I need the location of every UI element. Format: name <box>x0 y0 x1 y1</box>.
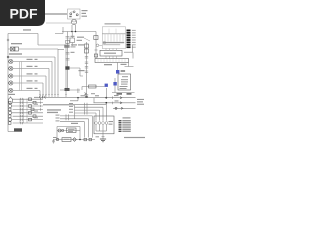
label net name right <box>127 93 132 94</box>
wire <box>82 86 105 88</box>
wire row low3 <box>60 122 85 138</box>
wire pointer <box>84 38 90 41</box>
wire <box>45 76 47 94</box>
connector pins <box>85 67 88 69</box>
connector eyelet <box>58 129 61 132</box>
label pin names <box>103 44 120 45</box>
wire <box>22 68 50 70</box>
wire <box>8 90 22 92</box>
resistor R7 <box>89 85 97 88</box>
wire <box>48 69 50 95</box>
label wire <box>77 37 84 38</box>
diode chevron <box>120 102 122 104</box>
pin 2 <box>127 32 136 34</box>
wire drop <box>105 88 107 98</box>
pin 1 <box>127 30 136 32</box>
wire bottom bus <box>38 97 136 99</box>
label circuit 3 <box>27 73 38 74</box>
ignition switch SW1 <box>68 9 81 19</box>
bus bar <box>95 59 129 63</box>
wire main feed <box>45 13 67 15</box>
label connector <box>79 70 85 71</box>
wire row 7 <box>8 117 43 121</box>
igniter box <box>94 116 114 134</box>
label <box>91 93 95 94</box>
node J1 <box>71 31 73 33</box>
label row1 <box>114 95 119 96</box>
wire <box>117 63 119 71</box>
label big connector <box>8 94 15 95</box>
label pin <box>71 52 75 53</box>
node J3 <box>105 97 107 99</box>
injector pins <box>85 103 88 106</box>
ecu box <box>67 128 77 133</box>
wire <box>8 56 55 58</box>
label inj3 <box>69 109 73 110</box>
label fuse <box>71 36 75 37</box>
relay coil <box>65 88 70 91</box>
diode chevron <box>85 93 87 95</box>
label circuit 2 <box>27 66 38 67</box>
wire center tap <box>102 131 104 139</box>
wire <box>39 91 41 95</box>
connector pins <box>85 95 88 97</box>
wire bracket <box>124 45 133 58</box>
label junction <box>71 44 77 45</box>
wire <box>55 27 63 34</box>
connector block U1 <box>102 27 125 49</box>
label net name left <box>117 93 123 94</box>
label table header <box>123 117 131 118</box>
wire <box>125 63 134 67</box>
label low2 <box>56 118 60 119</box>
node A <box>7 56 9 58</box>
wire <box>37 34 39 46</box>
wire header rail <box>102 33 125 35</box>
wire <box>42 83 44 94</box>
wire row2 <box>94 102 136 104</box>
wire <box>22 75 47 77</box>
label fuse F3 <box>78 44 84 45</box>
node J6 <box>79 139 81 141</box>
pin stubs <box>106 49 117 51</box>
wire coil common <box>96 130 107 132</box>
pin 5 <box>127 39 136 41</box>
label bus bar <box>104 64 112 65</box>
label right <box>121 64 127 65</box>
wire <box>22 90 41 92</box>
label note line3 <box>137 104 144 105</box>
label mid <box>81 95 86 96</box>
wire row low1 <box>60 116 93 138</box>
label main relay <box>9 53 22 54</box>
pin 3 <box>127 34 136 36</box>
wire <box>22 82 44 84</box>
wire row low2 <box>60 119 89 138</box>
lamp L4 <box>9 81 13 85</box>
label circuit 5 <box>27 88 38 89</box>
label row2 <box>115 100 119 101</box>
resistor R6 <box>62 138 71 142</box>
connector C1 <box>8 96 12 104</box>
injector pins <box>85 109 88 112</box>
pin 6 <box>127 42 136 44</box>
PDF badge <box>0 0 45 26</box>
diode chevron <box>120 97 122 99</box>
connector eyelet <box>115 107 117 109</box>
wire <box>38 44 66 46</box>
varistor V1 <box>73 138 77 142</box>
wire <box>75 25 77 32</box>
wire <box>71 25 73 32</box>
blue link marker 2 <box>113 82 116 86</box>
label fusible link <box>11 43 22 44</box>
blue link marker 1 <box>116 70 119 74</box>
wire <box>81 87 83 91</box>
label K1 line4 <box>121 84 128 85</box>
wire row 1 <box>13 97 43 101</box>
wire row 3 <box>8 104 43 108</box>
connector pins <box>66 117 69 120</box>
pin 7 <box>127 44 136 46</box>
wire right drop <box>95 32 97 59</box>
label left <box>53 137 57 138</box>
ground block <box>14 128 22 131</box>
label K1 line5 <box>120 86 128 87</box>
label F1 value <box>77 40 83 41</box>
label note line1 <box>137 99 144 100</box>
connector eyelet <box>62 129 64 131</box>
diode chevron <box>121 107 123 109</box>
injector pins <box>85 106 88 109</box>
wire <box>114 86 116 93</box>
label inj4 <box>69 112 73 113</box>
lamp L1 <box>9 59 13 63</box>
capacitor C1 <box>84 138 87 141</box>
connector pin dark <box>85 96 87 98</box>
fuse F1 <box>70 38 75 43</box>
fuse F1 <box>15 47 19 51</box>
wire <box>51 62 53 95</box>
wire <box>53 140 55 142</box>
pin 8 <box>127 46 136 48</box>
legend table <box>119 120 131 132</box>
wire columns <box>20 99 27 124</box>
wire <box>57 130 80 132</box>
label R6 <box>64 139 70 140</box>
wire <box>65 45 67 94</box>
label ecu top <box>71 123 78 124</box>
connector pins <box>66 37 70 39</box>
sub connector <box>100 50 122 56</box>
wire bottom bend <box>8 131 22 133</box>
label circuit 4 <box>27 80 38 81</box>
lamp L2 <box>9 66 13 70</box>
label inj1 <box>69 103 73 104</box>
connector pins <box>85 57 88 59</box>
pin stubs <box>106 56 117 59</box>
connector tick <box>112 102 114 105</box>
injector pins <box>85 112 88 115</box>
label low1 <box>56 115 60 116</box>
wire <box>8 61 22 63</box>
label ecu line2 <box>68 131 73 132</box>
wire bottom row <box>53 139 95 141</box>
label igniter line2 <box>109 124 113 125</box>
label low3 <box>56 120 60 121</box>
connector eyelet <box>56 138 58 140</box>
connector eyelet <box>103 41 106 44</box>
label K1 line2 <box>121 79 128 80</box>
wire row3 <box>113 107 136 109</box>
label K1 line6 <box>120 88 127 89</box>
wire row 8 <box>8 122 43 125</box>
wire row inj2 <box>75 107 104 116</box>
node J2 <box>75 31 77 33</box>
label igniter line1 <box>109 121 114 122</box>
blue link marker 3 <box>105 84 108 87</box>
wire <box>19 48 59 50</box>
coil T2 <box>98 116 101 131</box>
wire underline <box>112 92 135 94</box>
capacitor C2 <box>89 138 92 141</box>
wire <box>8 48 11 50</box>
ground GND2 <box>52 141 55 143</box>
svg-text:PDF: PDF <box>10 5 38 21</box>
label tap <box>96 136 100 137</box>
label K1 line1 <box>122 76 128 77</box>
junction block bus <box>67 32 69 91</box>
pin stubs <box>109 29 116 34</box>
ground GND1 <box>100 139 106 142</box>
label caption bottom <box>124 137 145 138</box>
wire row inj4 <box>75 113 97 116</box>
label pin numbers <box>103 42 124 43</box>
wire <box>114 78 116 82</box>
connector eyelet left <box>96 44 99 47</box>
connector pins <box>66 114 69 117</box>
connector pins <box>66 59 70 61</box>
wire <box>8 82 22 84</box>
label cowl connector <box>105 23 121 24</box>
wire row inj3 <box>75 110 100 116</box>
pin 4 <box>127 37 136 39</box>
connector pin <box>95 49 98 51</box>
wire vertical bus pair <box>20 62 22 91</box>
wire left bus <box>7 34 9 132</box>
label stamp line2 <box>47 112 58 113</box>
wire ecu loop <box>57 127 80 140</box>
junction block body <box>64 45 69 48</box>
label stamp line1 <box>47 109 61 110</box>
wire <box>57 49 59 94</box>
coil T1 <box>95 116 98 131</box>
wire branch <box>68 68 84 76</box>
lamp L3 <box>9 74 13 78</box>
wire row 4 <box>8 108 43 111</box>
connector pins <box>85 62 88 64</box>
connector tick <box>112 96 114 99</box>
relay box K1 <box>118 74 131 90</box>
fuse bus <box>86 42 88 98</box>
wire injector bus left <box>74 104 76 119</box>
label K1 line3 <box>121 81 128 82</box>
wire <box>60 89 80 91</box>
node J5 <box>105 102 107 104</box>
connector row pins <box>39 95 67 97</box>
label mid2 <box>95 95 99 96</box>
label battery feed <box>23 29 31 30</box>
wire <box>93 98 95 103</box>
wire columns <box>105 34 123 42</box>
connector pins <box>66 53 70 55</box>
wire <box>8 75 22 77</box>
fuse F3 <box>85 44 89 48</box>
fuse F2 <box>66 40 69 43</box>
wire <box>46 22 71 24</box>
diode D1 <box>94 36 98 40</box>
key cylinder connector <box>71 19 76 24</box>
wire row 5 <box>8 111 43 115</box>
wire main bus horizontal <box>62 31 96 33</box>
wire <box>99 44 103 46</box>
label marker 1 <box>121 70 126 71</box>
label inj2 <box>69 106 73 107</box>
coil T3 <box>102 116 105 131</box>
wire <box>8 33 38 35</box>
wire <box>22 61 53 63</box>
connector tick <box>102 136 105 138</box>
label caption mid <box>43 104 74 105</box>
resistor R1 <box>94 54 97 57</box>
wire <box>54 57 56 94</box>
fuse F4 <box>85 49 89 53</box>
label SW1 text <box>82 10 88 17</box>
fusible link FL1 <box>11 47 15 51</box>
comb connector top right <box>40 96 46 99</box>
wire <box>70 98 78 101</box>
label ecu line1 <box>68 129 75 130</box>
coil T4 <box>105 116 108 131</box>
wire row inj1 <box>75 104 107 116</box>
wire row 6 <box>8 115 43 118</box>
lamp L5 <box>9 88 13 92</box>
relay body <box>65 66 69 69</box>
label note line2 <box>137 101 143 102</box>
node J4 <box>77 97 79 99</box>
battery B+ mark <box>7 39 9 41</box>
label block <box>71 46 76 47</box>
connector pins <box>85 71 88 73</box>
wire <box>8 68 22 70</box>
wire <box>71 32 73 47</box>
wire row 2 <box>8 101 43 104</box>
label circuit 1 <box>27 59 38 60</box>
label sub connector <box>104 53 116 54</box>
wire <box>58 49 64 51</box>
capacitor C3 <box>77 89 79 94</box>
